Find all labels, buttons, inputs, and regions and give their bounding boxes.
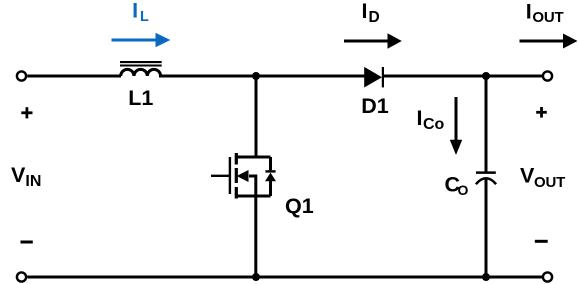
current label IL (132, 0, 149, 25)
svg-text:O: O (458, 182, 469, 198)
current arrow IOUT (520, 34, 578, 49)
svg-text:D: D (369, 9, 380, 26)
wire bottom (27, 276, 543, 279)
junction node cap top (482, 72, 490, 80)
capacitor CO (476, 173, 496, 185)
input terminal top (17, 71, 26, 80)
wire source branch (254, 196, 257, 277)
current arrow ICo (450, 97, 462, 155)
junction node bottom-right (482, 273, 490, 281)
minus sign output (535, 240, 548, 243)
current arrow IL (112, 33, 171, 47)
output terminal top (543, 71, 552, 80)
plus sign input (21, 107, 32, 118)
svg-text:OUT: OUT (532, 9, 563, 26)
wire cap branch lower (485, 180, 488, 278)
plus sign output (536, 107, 547, 118)
svg-text:L1: L1 (128, 86, 153, 110)
svg-text:I: I (526, 0, 532, 23)
transistor Q1 (211, 153, 276, 199)
wire top-mid (159, 75, 365, 78)
inductor L1 (120, 62, 162, 76)
output terminal bottom (543, 272, 552, 281)
wire drain branch (255, 76, 258, 159)
junction node bottom-left (252, 273, 260, 281)
input terminal bottom (17, 272, 26, 281)
svg-text:Q1: Q1 (285, 194, 314, 218)
svg-text:I: I (362, 0, 368, 23)
current label IOUT (526, 0, 564, 26)
junction node drain (252, 72, 260, 80)
current arrow ID (344, 33, 402, 48)
current label ICo (417, 106, 445, 133)
svg-text:Co: Co (423, 116, 445, 133)
wire cap branch upper (485, 76, 488, 172)
wire top-left (27, 75, 121, 78)
svg-text:V: V (11, 163, 26, 187)
minus sign input (21, 241, 33, 244)
svg-text:I: I (417, 106, 423, 130)
svg-text:OUT: OUT (534, 174, 565, 191)
capacitor label CO (445, 173, 469, 199)
label VOUT (520, 164, 565, 191)
svg-text:V: V (520, 164, 535, 188)
diode D1 (364, 67, 383, 88)
wire top-right (384, 75, 543, 78)
svg-text:L: L (140, 9, 149, 25)
svg-text:IN: IN (25, 173, 41, 190)
label VIN (11, 163, 41, 190)
svg-text:D1: D1 (361, 94, 389, 118)
current label ID (362, 0, 380, 26)
svg-text:I: I (132, 0, 138, 23)
